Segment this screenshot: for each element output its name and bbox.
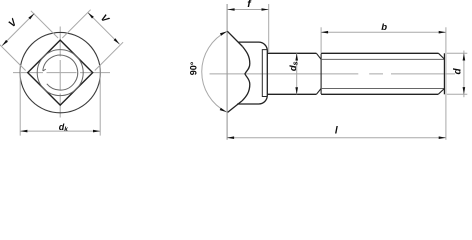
- dimension V right: extension line from square right corner: [95, 42, 123, 70]
- square neck outline (side view): [237, 42, 267, 104]
- arrow ds bottom: [295, 87, 298, 94]
- square neck intersection curve (wavy profile): [242, 47, 250, 101]
- arrow V-left upper: [28, 13, 34, 19]
- arrow ds top: [295, 53, 298, 60]
- tip chamfer top: [439, 53, 445, 59]
- tip end face: [443, 53, 445, 94]
- arrow l right: [439, 136, 446, 139]
- dimension b: left extension line: [320, 27, 322, 53]
- dimension d: dimension line: [463, 51, 465, 98]
- angle dimension arc 90deg: [202, 31, 227, 112]
- centerline horizontal (side view): [210, 73, 456, 75]
- arrow f left: [227, 8, 234, 11]
- head cone top edge: [227, 31, 242, 46]
- dimension b: right extension line (shared with l): [445, 27, 447, 140]
- dimension V right: extension line from square top corner: [62, 10, 90, 38]
- arrow b right: [439, 31, 446, 34]
- arrow arc top: [220, 31, 227, 35]
- neck end face rectangle: [262, 50, 267, 97]
- thread runout bottom diagonal: [316, 89, 321, 95]
- thread runout top diagonal: [316, 53, 321, 59]
- arrow V-left lower: [2, 40, 8, 46]
- head flat face + f/l extension line: [226, 4, 228, 140]
- thread minor bottom line: [321, 88, 444, 90]
- arrow f right: [262, 8, 269, 11]
- shank circle inscribed in square: [37, 50, 83, 96]
- centerline horizontal (front view): [13, 72, 111, 74]
- dimension d: bottom extension line: [447, 93, 468, 95]
- centerline vertical (front view): [59, 27, 61, 118]
- dimension f: right extension line: [268, 4, 270, 53]
- dimension dk: right extension line: [99, 65, 101, 136]
- svg-text:b: b: [381, 22, 387, 33]
- shank/thread major bottom line: [267, 93, 438, 95]
- dimension l: dimension line: [227, 137, 446, 139]
- arrow arc bottom: [220, 108, 227, 112]
- dimension dk: left extension line: [19, 65, 21, 136]
- tip chamfer bottom: [438, 89, 444, 95]
- thread start vertical line: [320, 54, 322, 94]
- arrow dk right: [93, 130, 100, 133]
- dimension ds: dimension line: [296, 53, 298, 94]
- inner thread arc (incomplete circle): [43, 55, 78, 90]
- head outer circle dk (front view): [20, 32, 100, 112]
- arrow V-right lower: [114, 38, 120, 44]
- inner arc end hook: [43, 69, 46, 71]
- dimension V left: extension line from square left corner: [0, 44, 26, 71]
- svg-text:90°: 90°: [188, 61, 198, 75]
- thread minor top line: [321, 58, 444, 60]
- arrow b left: [321, 31, 328, 34]
- dimension d: top extension line: [447, 52, 468, 54]
- dimension f: dimension line: [227, 9, 268, 11]
- shank/thread major top line: [267, 52, 438, 54]
- arrow d bottom: [463, 87, 466, 94]
- dimension V left: extension line from square top corner: [31, 11, 58, 38]
- dimension V right: dimension line: [88, 13, 120, 45]
- dimension V left: dimension line: [2, 13, 35, 46]
- arrow d top: [463, 53, 466, 60]
- svg-text:l: l: [335, 126, 338, 137]
- svg-text:d: d: [452, 67, 463, 74]
- square neck (front view diamond): [28, 40, 93, 105]
- head cone bottom edge: [228, 101, 242, 113]
- arrow dk left: [20, 130, 27, 133]
- dimension dk: dimension line: [20, 130, 100, 132]
- arrow V-right upper: [88, 13, 94, 19]
- arrow l left: [227, 136, 234, 139]
- dimension b: dimension line: [321, 31, 446, 33]
